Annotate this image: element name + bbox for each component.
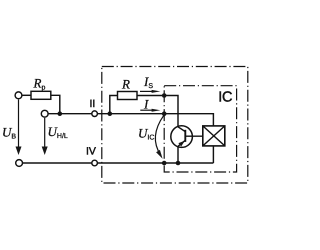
svg-text:IS: IS <box>143 74 153 90</box>
svg-text:UIC: UIC <box>138 125 154 141</box>
resistor Rp <box>31 91 51 99</box>
outer dash-dot boundary box <box>102 67 248 184</box>
terminal T2 <box>41 110 48 117</box>
wire node IV to crossed box bottom <box>98 162 214 164</box>
svg-text:I: I <box>143 97 149 112</box>
wire transistor emitter down <box>177 147 179 164</box>
resistor R <box>118 92 138 100</box>
voltage arrow UHL <box>42 118 48 155</box>
junction dot A <box>58 111 63 116</box>
current arrow I <box>140 109 160 112</box>
wire T3 to node IV <box>23 162 92 164</box>
svg-text:II: II <box>90 98 96 110</box>
svg-text:IC: IC <box>218 89 232 105</box>
wire crossed box bottom <box>212 146 214 163</box>
crossed box (sensor element) <box>203 126 225 146</box>
svg-text:IV: IV <box>86 145 96 157</box>
voltage arc UIC <box>155 115 164 159</box>
junction dot B <box>108 111 113 116</box>
current arrow IS <box>140 90 160 93</box>
svg-text:UH/L: UH/L <box>48 124 68 140</box>
wire T2 to node II <box>48 113 92 115</box>
wire Rp to junction A <box>51 95 60 113</box>
voltage arrow UB <box>16 100 22 156</box>
wire junction B up to R <box>110 96 118 114</box>
IC inner dash-dot box <box>164 86 236 172</box>
junction dot C <box>162 93 167 98</box>
svg-text:Rp: Rp <box>33 76 46 92</box>
junction dot F <box>162 161 167 166</box>
terminal T1 <box>15 92 22 99</box>
terminal T3 <box>16 160 23 167</box>
junction dot D <box>162 111 167 116</box>
svg-text:R: R <box>121 76 130 91</box>
wire T1 to Rp <box>22 94 31 96</box>
node IV terminal <box>92 160 98 166</box>
junction dot E <box>176 161 181 166</box>
transistor Q1 <box>171 126 203 148</box>
svg-text:UB: UB <box>2 124 16 140</box>
wire R to transistor collector <box>137 96 178 127</box>
wire node II to crossed box top corner <box>98 114 214 126</box>
node II terminal <box>92 111 98 117</box>
